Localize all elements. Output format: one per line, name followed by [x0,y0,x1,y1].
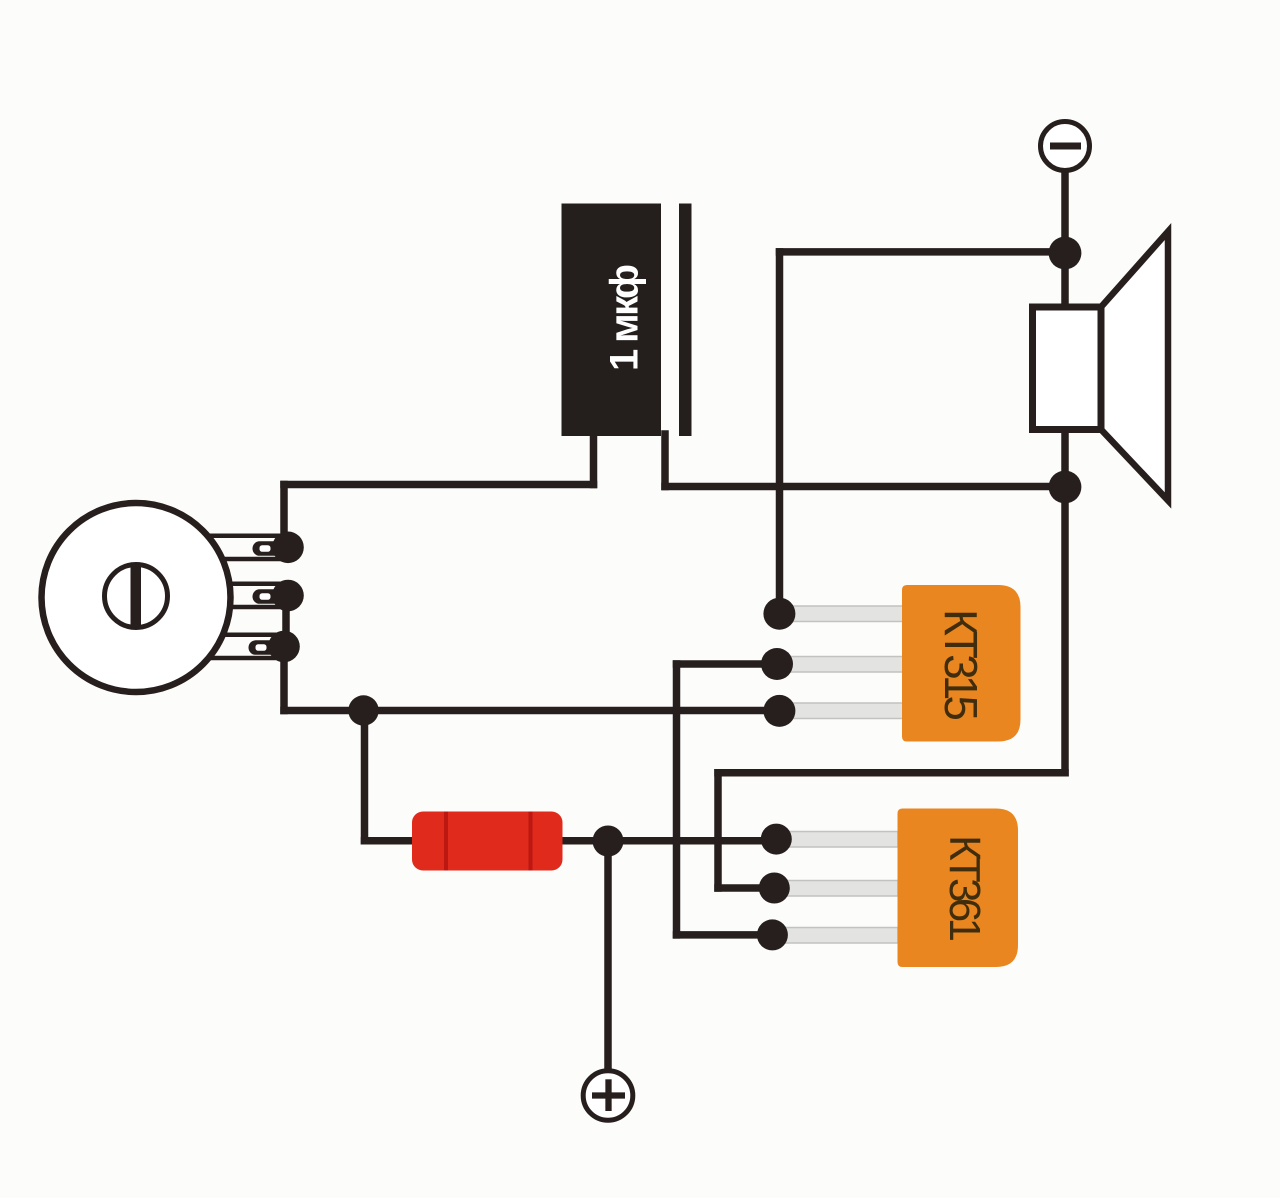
KT361 pin2 lead [774,881,898,897]
wire capacitor left lead horizontal to pot corner [284,481,594,489]
wire pot pin3 down to bottom rail [280,647,288,711]
node pot pin3 [268,631,300,663]
wire pot pin2 to pin3 [282,596,290,647]
wire capacitor left lead vertical [590,434,598,485]
node pot pin1 [272,532,304,564]
node KT315 pin1 [763,598,795,630]
node pot pin2 [272,580,304,612]
transistor Q2 KT361 body [898,809,1019,968]
wire KT315 pin2 horizontal [677,660,778,668]
wire top horizontal node A to Q1 collector drop [780,248,1066,256]
node C [348,695,378,725]
KT361 pin3 lead [772,928,898,944]
node D [593,826,624,857]
node A [1049,237,1082,270]
potentiometer R1 terminal tabs [186,536,284,658]
speaker LS1 horn [1101,232,1168,501]
svg-text:1 мкф: 1 мкф [603,264,647,371]
KT315 pin2 lead [777,657,903,673]
wire to KT361 pin3 [677,931,773,939]
capacitor C1 body [562,204,662,437]
wire KT315 pin2 vertical down [673,664,681,935]
wire corner down to pot pin1 [280,485,288,548]
KT315 pin1 lead [779,606,903,622]
wire capacitor right lead vertical [661,434,669,487]
KT361 pin1 lead [776,832,898,848]
node KT315 pin2 [761,648,793,680]
speaker LS1 magnet body [1033,307,1102,430]
transistor Q1 KT315 body [902,585,1021,742]
node KT361 pin1 [761,824,792,855]
wire right rail horizontal [718,769,1065,777]
minus terminal [1041,122,1090,171]
wire capacitor right lead horizontal to node B [665,483,1065,491]
wire speaker bottom to node B [1061,428,1069,487]
node KT315 pin3 [763,695,795,727]
pot tab pin2 [190,584,284,607]
pot tab pin3 [186,635,280,658]
wire down to KT361 pin2 row [714,773,722,888]
KT315 pin3 lead [779,703,903,719]
potentiometer slot [131,565,142,628]
wire node B down right rail [1061,487,1069,773]
wire node C down to resistor row [361,711,369,841]
capacitor C1 stripe [679,204,692,437]
wire to KT361 pin2 [718,884,774,892]
transistor Q1 KT315 leads [777,606,903,719]
node KT361 pin2 [759,873,790,904]
node B [1049,471,1082,504]
resistor R2 cap lines [444,812,448,871]
wire node D down to plus terminal [604,841,612,1071]
wire vertical drop to KT315 pin1 [776,252,784,614]
wire bottom rail to KT315 pin3 [284,707,780,715]
svg-text:КТ315: КТ315 [935,609,987,721]
potentiometer rotor [105,565,168,628]
transistor Q2 KT361 leads [772,832,898,944]
svg-text:КТ361: КТ361 [940,835,989,942]
plus terminal [583,1071,633,1121]
wire minus terminal to node A [1061,168,1069,253]
pot tab pin1 [190,536,284,559]
wire resistor row horizontal to KT361 pin1 [365,837,777,845]
node KT361 pin3 [757,919,788,950]
wire node A to speaker top [1061,253,1069,310]
resistor R2 body [412,812,563,871]
potentiometer R1 body [42,503,231,692]
